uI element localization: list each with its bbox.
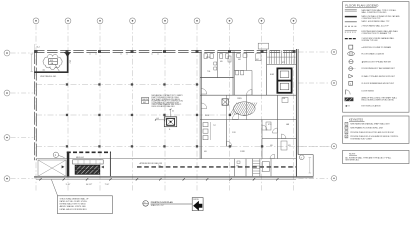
svg-text:ATRIUM ROOF BELOW: ATRIUM ROOF BELOW: [140, 162, 163, 165]
grid row line y115: [36, 114, 231, 116]
column bubble 8: [259, 18, 265, 24]
right row bubble C: [299, 144, 337, 149]
right note box: [343, 150, 409, 163]
svg-text:411: 411: [288, 145, 291, 147]
grid column line 6: [196, 24, 198, 190]
column markers top wall: [35, 50, 296, 53]
mech shaft note text: [152, 94, 184, 108]
svg-text:ID DOOR NUMBER AND HW SET KEY: ID DOOR NUMBER AND HW SET KEY: [362, 82, 395, 85]
legend row 6 symbol: [345, 38, 357, 40]
column bubble 6: [194, 18, 200, 24]
mech tag stack box: [142, 97, 149, 104]
legend row 8 symbol oval: [348, 52, 355, 56]
canopy rect above top wall: [258, 43, 268, 49]
column bubble 4: [130, 18, 136, 24]
svg-text:◀ NEW DOOR TYPE AND HW SET: ◀ NEW DOOR TYPE AND HW SET: [362, 60, 392, 63]
column bubble 5: [162, 18, 168, 24]
right row bubble D: [299, 176, 337, 181]
column bubble 7: [227, 18, 233, 24]
lower wall h y119: [200, 119, 296, 121]
legend row 11 text: [362, 75, 396, 78]
atrium corridor wall: [36, 158, 296, 160]
svg-text:4: 4: [346, 136, 347, 138]
room partition h y70: [234, 70, 252, 72]
north arrow glyph: [193, 201, 202, 211]
svg-text:NEW FRAMED FLOORING INFILL UNI: NEW FRAMED FLOORING INFILL UNIT: [350, 127, 384, 130]
skylight X-box: [38, 160, 66, 176]
svg-text:407: 407: [256, 59, 259, 61]
dim text top left corner: [34, 44, 39, 50]
svg-text:NEW RATED MECHANICAL SHAFT WAL: NEW RATED MECHANICAL SHAFT WALL UNIT: [350, 123, 390, 126]
vestibule room thick bottom wall: [34, 71, 68, 73]
legend row 9 symbol circle: [349, 60, 353, 64]
room partition v x252: [251, 71, 253, 96]
small room rects right: [266, 98, 288, 151]
right row bubble A: [299, 49, 337, 54]
svg-text:CONSTRUCTION TO REMAIN TYP: CONSTRUCTION TO REMAIN TYP: [362, 32, 392, 35]
toilet room partition: [217, 52, 219, 78]
svg-text:20-2: 20-2: [68, 60, 70, 63]
grid column line 3: [99, 24, 101, 190]
svg-text:402: 402: [143, 102, 146, 104]
shaft dim vertical: [169, 109, 174, 117]
left row bubble C: [4, 135, 33, 141]
svg-text:409: 409: [204, 151, 207, 153]
door arc bottom right 1: [281, 134, 286, 139]
vestibule label: [40, 70, 57, 78]
legend row 15 text: [362, 105, 382, 108]
lower wall v x262: [261, 120, 263, 159]
svg-text:NORTH: NORTH: [193, 199, 198, 201]
bottom band partitions: [234, 159, 271, 177]
svg-text:3-0: 3-0: [157, 118, 159, 120]
svg-text:DOOR SWING: DOOR SWING: [362, 90, 375, 92]
wc room wall v x226 lower: [226, 120, 228, 147]
svg-text:ID WALL TYPE AND KEYED NOTE SE: ID WALL TYPE AND KEYED NOTE SET: [362, 75, 396, 78]
grid row line y84: [36, 84, 199, 86]
grid row line y146: [36, 145, 330, 147]
atrium roof dashed edge: [137, 166, 296, 168]
legend row 8 text: [362, 52, 385, 55]
svg-text:410: 410: [270, 145, 273, 147]
svg-text:2 HOUR RATED WALL (UL) TYP: 2 HOUR RATED WALL (UL) TYP: [362, 24, 390, 27]
column markers row y84: [66, 83, 198, 85]
svg-text:TLT: TLT: [213, 125, 216, 127]
mech dim above equipment: [76, 157, 104, 168]
svg-text:51-2: 51-2: [37, 47, 40, 49]
elevator shaft: [277, 68, 291, 92]
svg-text:STRUCTURAL DEMISING WALL OF: STRUCTURAL DEMISING WALL OF: [60, 197, 89, 200]
svg-text:ROOM FINISH KEY TAG NUMBER SET: ROOM FINISH KEY TAG NUMBER SET: [362, 67, 396, 70]
arrow marker near mech room: [62, 165, 65, 168]
svg-text:408: 408: [243, 115, 246, 117]
svg-text:MECH 402: MECH 402: [76, 157, 84, 159]
legend row 10 symbol circle-plus: [349, 67, 356, 71]
legend row 14 text: [362, 97, 397, 102]
svg-text:KEYNOTES: KEYNOTES: [349, 118, 363, 122]
svg-text:FLOOR PLAN LEGEND: FLOOR PLAN LEGEND: [345, 3, 379, 7]
svg-text:EQUIPMENT PRIOR TO CONSTRUCTIO: EQUIPMENT PRIOR TO CONSTRUCTION.: [152, 101, 184, 103]
legend row 4 symbol: [345, 25, 357, 27]
svg-text:PROVIDE PLAN FOR ELECTRIC AND: PROVIDE PLAN FOR ELECTRIC AND DOOR ROOM: [350, 131, 394, 134]
title text: [151, 201, 173, 207]
svg-text:FLOOR DRAIN LOCATION: FLOOR DRAIN LOCATION: [362, 52, 385, 55]
stair treads: [267, 50, 296, 64]
legend row 7 symbol square: [349, 45, 353, 49]
legend row 2 text: [362, 15, 401, 20]
grid column line 5: [164, 24, 166, 190]
column markers row y146: [66, 145, 263, 147]
svg-text:40: 40: [172, 111, 174, 113]
svg-text:WOM: WOM: [205, 115, 210, 117]
room tag box: [49, 59, 58, 66]
bottom band closet rect: [262, 162, 269, 172]
bottom note box: [57, 196, 112, 214]
svg-text:MECH: MECH: [142, 99, 148, 101]
mech room heavy top wall: [67, 151, 111, 153]
legend row 1 symbol: [345, 10, 357, 11]
legend row 9 text: [362, 60, 392, 63]
legend row 7 text: [362, 46, 392, 49]
svg-text:SEE SHEET A0.1: SEE SHEET A0.1: [345, 159, 359, 162]
legend row 6 text: [362, 37, 395, 42]
left dimension marks: [30, 54, 33, 72]
legend row 2 symbol: [345, 16, 357, 18]
toilet fixtures: [204, 54, 229, 70]
svg-text:7'-10": 7'-10": [105, 184, 110, 186]
door arc x232 y113: [232, 113, 238, 119]
svg-text:CONSTRUCTION TYP: CONSTRUCTION TYP: [362, 18, 382, 20]
legend row 15 symbol dot: [346, 105, 351, 107]
balcony extension: [298, 155, 313, 177]
keynote 2: [345, 126, 384, 129]
svg-text:TOIL: TOIL: [207, 71, 211, 73]
shaft opening inner: [167, 118, 175, 125]
column X box: [222, 99, 229, 105]
door arc x262: [262, 125, 267, 130]
extra fixtures left toilet block: [228, 52, 247, 75]
mech room heavy left wall: [67, 152, 70, 177]
oval hatch table: [230, 102, 257, 116]
door arc bottom right 2: [270, 154, 274, 158]
left row bubble A: [4, 50, 33, 56]
grid column line 2: [67, 24, 69, 190]
atrium roof label: [140, 162, 163, 167]
door arc center room: [247, 90, 253, 96]
svg-text:ABOVE. SEAL ALL JOINTS. SEE: ABOVE. SEAL ALL JOINTS. SEE: [60, 205, 87, 208]
svg-text:FOURTH FLOOR PLAN: FOURTH FLOOR PLAN: [151, 201, 173, 204]
svg-text:4xx: 4xx: [42, 70, 45, 72]
legend row 13 text: [362, 90, 375, 92]
legend row 1 text: [362, 9, 397, 14]
keynotes box: [343, 116, 409, 143]
svg-text:NEW 1 HOUR RATED WALL TYP: NEW 1 HOUR RATED WALL TYP: [362, 20, 391, 23]
mech upper equipment outline: [73, 160, 104, 164]
corridor door arc 1: [201, 89, 207, 95]
svg-text:405: 405: [220, 61, 223, 63]
legend row 4 text: [362, 24, 390, 27]
column markers row y115: [66, 114, 231, 116]
keynote 3: [345, 131, 394, 134]
legend row 3 text: [362, 20, 391, 23]
note leader: [51, 180, 57, 196]
small tick marks along top wall: [90, 53, 158, 55]
fixtures center room: [237, 54, 262, 61]
keynotes title: [349, 118, 365, 122]
wc fixtures: [203, 122, 211, 140]
svg-text:VESTIBULE 401: VESTIBULE 401: [40, 76, 57, 78]
keynote 4: [345, 135, 398, 140]
grid column line 7: [229, 24, 231, 190]
title underline to north arrow: [151, 203, 193, 205]
left row bubble B: [4, 90, 33, 96]
legend row 5 text: [362, 30, 398, 35]
keynote 1: [345, 122, 390, 125]
svg-text:ST2: ST2: [282, 62, 285, 64]
bottom dimension text: [66, 184, 110, 186]
left row bubble D: [4, 176, 33, 182]
title bubble: [143, 201, 149, 207]
mech equipment hatched: [75, 165, 100, 174]
legend title: [345, 3, 379, 7]
shaft opening outer: [164, 117, 176, 127]
door arc x277: [272, 128, 277, 133]
right note text: [345, 156, 391, 161]
grid column line 1: [35, 24, 37, 190]
svg-text:30'-1/2": 30'-1/2": [86, 184, 92, 186]
keynote circle tag right: [299, 155, 304, 160]
toilet room wall h: [200, 77, 234, 79]
partition v x246: [246, 95, 248, 119]
svg-text:406: 406: [238, 59, 241, 61]
svg-text:EXTEND WALL TIGHT TO DECK: EXTEND WALL TIGHT TO DECK: [60, 203, 87, 206]
ladder rungs: [253, 161, 260, 174]
revision cloud: [43, 54, 62, 69]
legend row 12 symbol square2: [349, 81, 353, 85]
top exterior wall: [34, 51, 297, 53]
column bubble 9: [291, 18, 297, 24]
left exterior wall: [34, 51, 36, 160]
mech room right wall: [109, 152, 111, 177]
north arrow box: [192, 198, 203, 211]
room labels right complex: [204, 57, 291, 153]
right note title: [349, 154, 357, 156]
svg-text:EXIT SIGN LOCATION: EXIT SIGN LOCATION: [362, 105, 382, 108]
bottom exterior wall: [34, 176, 314, 177]
legend row 13 symbol door arc: [346, 90, 351, 95]
grid column line 8: [261, 24, 263, 190]
roof drain marks: [237, 161, 241, 168]
column bubble 2: [65, 18, 71, 24]
svg-text:DETAIL 4/A5.01 FOR MORE INFO.: DETAIL 4/A5.01 FOR MORE INFO.: [60, 208, 88, 211]
svg-text:SYSTEM AT ELEV LOBBY: SYSTEM AT ELEV LOBBY: [350, 137, 372, 140]
svg-text:9'-10": 9'-10": [66, 184, 71, 186]
vestibule room thick right wall: [67, 52, 69, 73]
corridor door arc 2: [201, 103, 207, 109]
svg-text:2: 2: [346, 128, 347, 130]
svg-text:RATED GYP. BD. ON MTL STUDS.: RATED GYP. BD. ON MTL STUDS.: [60, 200, 88, 203]
legend row 10 text: [362, 67, 396, 70]
lower wall h y138: [262, 138, 296, 140]
svg-text:3: 3: [346, 132, 347, 134]
svg-text:ENCLOSURE (LOWER LEVEL UNITS): ENCLOSURE (LOWER LEVEL UNITS): [362, 100, 395, 102]
room tag leader: [55, 65, 59, 72]
section marker: [64, 53, 71, 58]
svg-text:1: 1: [346, 124, 347, 126]
shaft dim horizontal: [155, 118, 166, 121]
svg-text:● EXISTING COLUMN TO REMAIN: ● EXISTING COLUMN TO REMAIN: [362, 46, 392, 49]
column bubble 1: [33, 18, 39, 24]
center wall v x233: [233, 52, 234, 96]
legend row 12 text: [362, 82, 395, 85]
stair west wall: [266, 50, 268, 96]
column bubble 3: [97, 18, 103, 24]
wc door arc: [227, 141, 232, 146]
stair landing wall: [267, 64, 297, 66]
elevator lobby wall: [276, 95, 278, 158]
right row bubble B: [299, 80, 337, 85]
right exterior wall: [296, 49, 298, 177]
partition v x226 upper: [226, 95, 228, 119]
keynote circle tag left: [53, 152, 64, 158]
corridor wall vertical: [200, 52, 201, 159]
svg-text:LOB: LOB: [282, 98, 285, 100]
legend row 14 symbol hatch blob: [345, 98, 353, 101]
svg-text:SYSTEM TYP UNO: SYSTEM TYP UNO: [362, 40, 379, 42]
bottom dimension line: [36, 178, 296, 180]
legend row 5 symbol: [345, 31, 357, 32]
svg-text:WALL CONSTRUCTION UNO: WALL CONSTRUCTION UNO: [362, 11, 387, 14]
grid column line 4: [132, 24, 134, 190]
mid wall h y95: [200, 94, 296, 96]
legend box: [343, 2, 409, 113]
legend row 11 symbol triangle: [349, 74, 353, 78]
grid column line 9: [293, 24, 295, 190]
legend row 3 symbol: [345, 21, 357, 23]
